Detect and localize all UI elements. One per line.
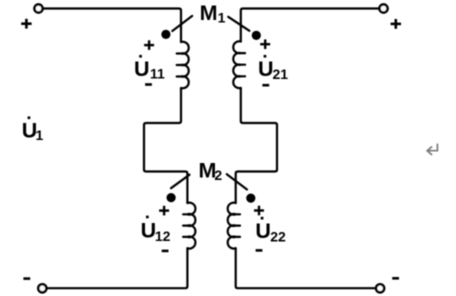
wire top-left [43, 9, 181, 43]
svg-text:12: 12 [155, 228, 171, 244]
wire left link L11 to L12 [144, 88, 187, 203]
svg-text:U: U [255, 219, 271, 243]
plus terminal top-left [21, 19, 31, 29]
terminal top-left [34, 4, 42, 12]
plus U22 [254, 206, 264, 216]
svg-text:U: U [141, 218, 157, 242]
plus U12 [159, 206, 169, 216]
svg-text:2: 2 [214, 167, 222, 183]
M2 arrow right [227, 174, 247, 189]
plus U11 [144, 40, 154, 50]
paragraph return mark [427, 145, 437, 155]
dot mark L22 [246, 194, 255, 203]
M1 arrow left [172, 16, 192, 31]
inductor L21 [233, 41, 245, 88]
M2 arrow left [171, 175, 190, 189]
minus U12 [162, 250, 169, 253]
svg-text:11: 11 [150, 66, 165, 82]
terminal bottom-right [376, 284, 384, 292]
wire bottom-left [47, 248, 187, 288]
svg-text:U: U [258, 57, 274, 81]
wire right link L21 to L22 [236, 88, 277, 203]
svg-text:M: M [200, 1, 218, 25]
dot mark L11 [161, 30, 170, 39]
terminal bottom-left [38, 284, 46, 292]
minus U22 [256, 249, 263, 252]
svg-text:U: U [134, 57, 150, 81]
svg-text:1: 1 [36, 127, 44, 143]
svg-text:22: 22 [270, 228, 286, 244]
minus U11 [145, 83, 152, 86]
minus U21 [262, 84, 269, 87]
minus terminal bottom-right [392, 277, 399, 280]
minus terminal bottom-left [23, 277, 30, 280]
svg-text:21: 21 [273, 66, 289, 82]
plus U21 [260, 39, 270, 49]
terminal top-right [379, 4, 387, 12]
inductor L22 [228, 203, 240, 249]
inductor L11 [177, 42, 189, 89]
plus terminal top-right [391, 19, 401, 29]
svg-text:1: 1 [218, 9, 226, 25]
dot mark L12 [167, 193, 176, 202]
wire top-right [241, 9, 379, 42]
M1 arrow right [228, 17, 249, 31]
dot mark L21 [252, 31, 261, 40]
inductor L12 [183, 203, 195, 249]
wire bottom-right [236, 248, 376, 288]
